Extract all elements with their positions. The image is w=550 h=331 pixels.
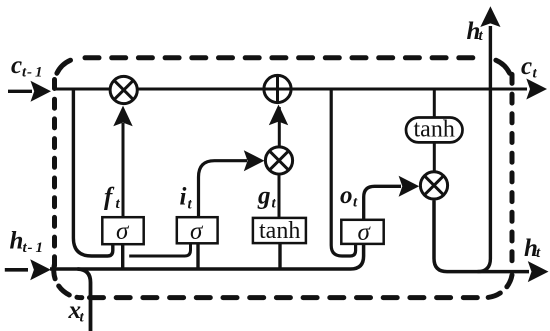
label c_t	[521, 53, 538, 82]
wire: tanh stadium down to output multiply	[433, 142, 436, 171]
wire: h input line segment	[5, 268, 28, 272]
wire: input box bottom vertical to h line	[196, 243, 199, 269]
wire: right peephole from c line down to output sigma box	[331, 89, 355, 256]
svg-text:o: o	[340, 182, 353, 209]
arrowhead c_{t-1} input	[31, 81, 52, 102]
multiply node: output gate circle	[420, 172, 447, 199]
arrowhead h_t right output	[528, 261, 549, 282]
wire: output gate elbow toward output multiply	[364, 186, 401, 220]
svg-text:c: c	[11, 52, 22, 79]
arrowhead h_{t-1} input	[30, 259, 51, 280]
cell boundary dashed border: left edge	[52, 80, 57, 271]
wire: g multiply arrow up into add	[278, 107, 281, 147]
wire: g box top vertical to g multiply	[278, 175, 281, 219]
svg-text:g: g	[257, 183, 271, 210]
wire: feed from forget column to input sigma box	[129, 245, 190, 257]
wire: c line down into tanh stadium	[433, 89, 436, 118]
svg-text:c: c	[521, 53, 532, 80]
svg-text:σ: σ	[190, 218, 204, 245]
svg-text:i: i	[180, 184, 187, 211]
wire: left peephole from c line down to forget sigma box	[73, 89, 112, 256]
label x_t	[68, 297, 85, 326]
wire: cell state horizontal line	[54, 88, 527, 91]
svg-text:tanh: tanh	[414, 117, 455, 143]
multiply node: forget gate circle	[110, 76, 137, 103]
wire: input gate elbow toward g multiply	[199, 161, 248, 218]
cell boundary dashed border: right edge	[510, 74, 515, 270]
cell boundary dashed border: top edge	[85, 55, 485, 60]
svg-text:tanh: tanh	[259, 218, 300, 244]
sigma box: forget gate	[102, 217, 143, 244]
svg-text:- 1: - 1	[28, 240, 44, 256]
svg-text:σ: σ	[358, 219, 372, 246]
arrowhead h_t top output	[480, 6, 500, 27]
tanh stadium on c path	[406, 118, 463, 143]
label h_t top	[467, 18, 484, 45]
wire: h top branch up and out	[478, 26, 491, 272]
svg-text:- 1: - 1	[27, 65, 43, 81]
svg-text:σ: σ	[116, 218, 130, 245]
arrowhead forget gate	[113, 106, 132, 127]
cell boundary corner arc bottom-left	[54, 264, 82, 298]
label c_{t-1}	[11, 52, 43, 81]
arrowhead input gate	[244, 150, 265, 171]
wire: g box bottom vertical to h line	[278, 243, 281, 269]
label i_t	[180, 184, 193, 213]
cell boundary corner arc bottom-right	[485, 275, 512, 298]
label o_t	[340, 182, 358, 211]
wire: forget box bottom vertical to h line	[121, 244, 124, 269]
arrowhead c_t output	[526, 79, 547, 100]
tanh box: candidate g	[253, 218, 306, 243]
label h_t right	[524, 235, 541, 262]
wire: forget gate arrow up into multiply	[122, 123, 125, 217]
wire: x_t branch joining h line	[78, 269, 91, 331]
label f_t	[104, 184, 121, 213]
wire: output multiply down and right to h output	[434, 200, 529, 271]
svg-text:h: h	[10, 228, 24, 255]
wire: h horizontal line turning up into output sigma box	[50, 244, 364, 269]
add node: cell update circle	[264, 75, 291, 102]
sigma box: output gate	[341, 220, 383, 244]
sigma box: input gate	[177, 217, 218, 243]
multiply node: candidate/input circle	[265, 147, 292, 174]
cell boundary dashed border: bottom edge	[90, 295, 487, 300]
cell boundary corner arc top-left	[57, 60, 71, 73]
label g_t	[257, 183, 277, 212]
label h_{t-1}	[10, 228, 44, 257]
wire: c input line segment	[8, 90, 32, 93]
arrowhead output gate	[399, 176, 420, 197]
cell boundary corner arc top-right	[496, 60, 510, 73]
arrowhead into add	[269, 105, 288, 126]
